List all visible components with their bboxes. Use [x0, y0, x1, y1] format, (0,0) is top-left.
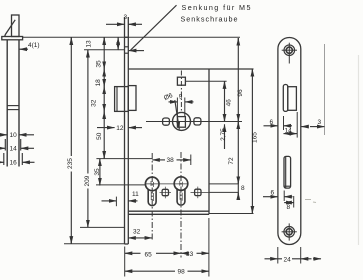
svg-text:2,75: 2,75 [220, 128, 227, 141]
dimension 65 [125, 252, 181, 254]
M5 screw hole in stulp [125, 47, 129, 53]
deadbolt hole in stulp [284, 156, 291, 188]
faceplate (stulp) front view [125, 17, 129, 244]
latch head behind stulp [288, 87, 297, 111]
stulp-left extension below [124, 247, 126, 277]
extension line 209 bottom [80, 226, 125, 228]
svg-text:72: 72 [228, 157, 235, 165]
svg-text:46: 46 [226, 99, 233, 107]
euro cylinder hole 2 [174, 177, 188, 205]
svg-text:209: 209 [84, 175, 91, 186]
dimension 6 bottom [263, 191, 293, 202]
label 4(1) with leader [19, 48, 28, 50]
svg-text:10: 10 [10, 132, 18, 139]
svg-text:11: 11 [132, 191, 139, 198]
svg-text:24: 24 [284, 257, 292, 264]
extension line stulp top [23, 36, 240, 38]
svg-text:33: 33 [186, 251, 194, 258]
svg-text:14: 14 [285, 128, 293, 135]
extension line 235 bottom [64, 243, 125, 245]
dimension 16 [0, 153, 35, 165]
follower square nut hole [177, 117, 185, 128]
extension line cylinder axis left [96, 184, 146, 186]
fixing hole left [163, 118, 170, 125]
dimension line 209 [87, 50, 89, 228]
dimension 10 [0, 134, 34, 136]
top square hole [177, 77, 185, 85]
dimension 3 stulp thickness [106, 23, 142, 25]
lock case bottom edges [128, 211, 253, 214]
extension line M5 hole row [84, 49, 125, 51]
lock case right edge [208, 69, 210, 277]
leader line to Senkung text [129, 5, 177, 50]
square hole beside cylinder 2 [191, 187, 210, 199]
svg-text:16: 16 [10, 160, 18, 167]
dimension 6 top [264, 116, 293, 130]
svg-text:14: 14 [10, 146, 18, 153]
dimension 98 [125, 270, 209, 272]
follower circle [173, 112, 191, 130]
dimension 11 [102, 197, 138, 207]
dimension line 96 72 8 [237, 38, 239, 200]
svg-text:18: 18 [95, 79, 102, 87]
svg-text:35: 35 [94, 168, 101, 176]
lock case top edge [128, 68, 253, 70]
dimension 9 arrows [169, 101, 194, 103]
leader for diameter 6 [175, 100, 180, 129]
dimension line 46 and 2,75 [224, 81, 226, 149]
lock body side view [7, 40, 19, 167]
euro cylinder hole 1 [145, 177, 159, 206]
cylinder 2 centerline [180, 152, 182, 258]
paper edge shadow [358, 55, 360, 245]
svg-text:32: 32 [90, 99, 97, 107]
svg-text:38: 38 [167, 157, 175, 164]
dimension 12 latch [97, 127, 142, 129]
latch bolt side view [5, 15, 19, 37]
left chain dimension line 35/18/32/50/35 [100, 37, 104, 185]
square hole beside cylinder 1 [160, 187, 172, 199]
stulp plate outline right view [278, 38, 301, 245]
bottom screw hole [282, 223, 297, 240]
main hole row centerline [146, 121, 242, 123]
svg-text:4(1): 4(1) [28, 42, 40, 49]
svg-text:235: 235 [67, 158, 74, 169]
dimension 3 right [301, 126, 324, 128]
svg-text:50: 50 [96, 132, 103, 140]
svg-text:32: 32 [133, 229, 141, 236]
svg-text:6: 6 [270, 119, 274, 126]
cylinder row extension line [145, 183, 188, 185]
svg-text:3: 3 [318, 119, 322, 126]
extension line 50 bottom / 38 row [96, 158, 152, 160]
svg-text:3: 3 [124, 14, 128, 21]
svg-text:6: 6 [271, 190, 275, 197]
dimension 38 [152, 155, 191, 166]
top hole centerline [180, 71, 182, 113]
svg-text:Senkung für M5: Senkung für M5 [182, 3, 252, 12]
latch bolt front view [115, 86, 136, 112]
cylinder 1 centerline [151, 153, 153, 242]
dimension 14 [0, 139, 34, 151]
page fold line [324, 44, 326, 135]
fixing hole right [194, 118, 201, 125]
svg-text:9: 9 [179, 94, 183, 101]
dimension line 165 [251, 69, 253, 214]
svg-text:35: 35 [96, 60, 103, 68]
svg-text:Senkschraube: Senkschraube [181, 14, 239, 23]
dimension 14 stulp [284, 112, 298, 138]
extension line top square to 46 [185, 80, 226, 82]
dimension 24 [265, 247, 322, 264]
svg-text:165: 165 [252, 132, 259, 143]
svg-text:96: 96 [237, 89, 244, 97]
latch hole in stulp [283, 85, 288, 112]
faint smudge [305, 200, 316, 203]
top screw hole [282, 43, 297, 64]
svg-text:Ø6: Ø6 [163, 92, 174, 102]
dimension line 235 [70, 37, 72, 244]
svg-text:8: 8 [287, 204, 291, 211]
faceplate flange side view [2, 37, 23, 40]
dimension 32 lower left [128, 237, 152, 239]
dimension 9 extension lines [177, 98, 184, 117]
dimension line 13 [117, 37, 119, 50]
svg-text:8: 8 [241, 185, 245, 192]
svg-text:65: 65 [145, 252, 153, 259]
extension lines for 8 [209, 184, 238, 193]
dimension 8 bottom [284, 196, 294, 208]
svg-text:12: 12 [116, 125, 124, 132]
svg-text:98: 98 [178, 269, 186, 276]
svg-text:13: 13 [86, 40, 93, 48]
dimension 33 [181, 252, 209, 254]
